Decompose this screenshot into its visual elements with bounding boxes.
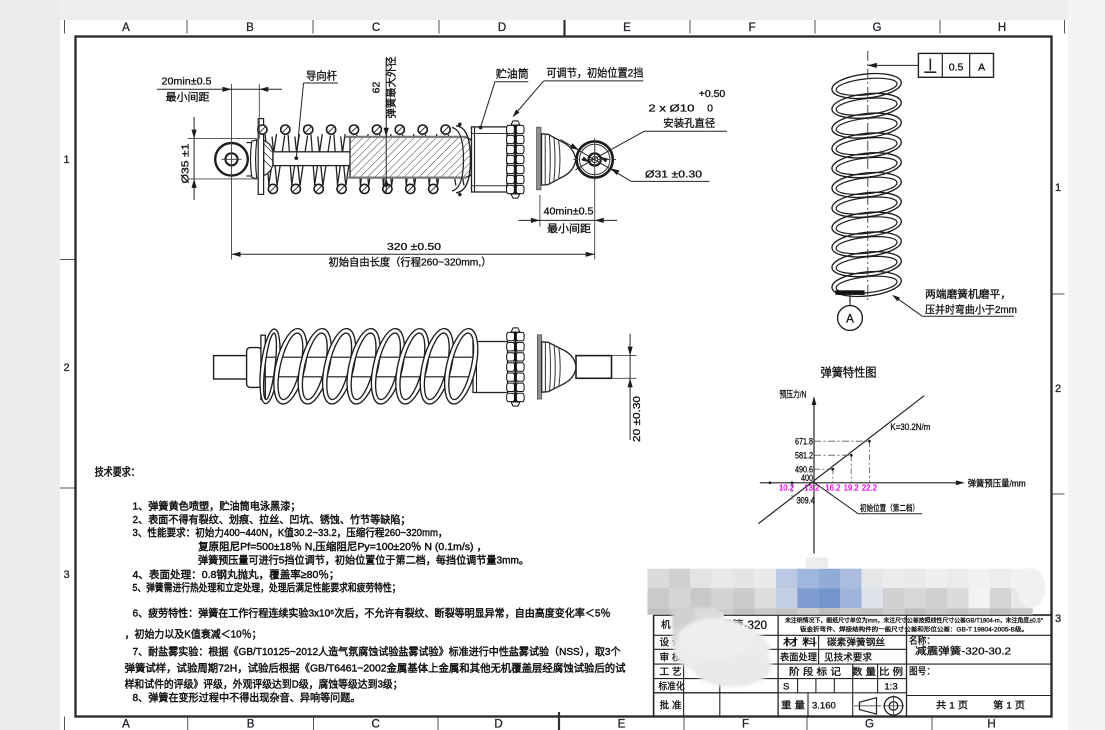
svg-text:名称：: 名称： bbox=[909, 635, 935, 647]
mosaic top protrusion block bbox=[806, 557, 829, 568]
svg-text:两端磨簧机磨平，: 两端磨簧机磨平， bbox=[925, 288, 1011, 301]
mosaic bottom strip bbox=[648, 608, 670, 615]
svg-text:3、性能要求：初始力400~440N，K值30.2~33.2: 3、性能要求：初始力400~440N，K值30.2~33.2，压缩行程260~3… bbox=[133, 526, 448, 539]
dimension 62 spring max OD bbox=[385, 57, 387, 194]
zone row ticks left bbox=[60, 259, 76, 261]
view2 preload adjuster rings bbox=[507, 332, 515, 340]
view1 left eye ring bbox=[215, 143, 248, 176]
chart dashed construction lines bbox=[814, 440, 869, 442]
view1 piston rod (guide rod) bbox=[273, 152, 351, 166]
svg-text:1: 1 bbox=[63, 154, 69, 166]
zone band ticks bottom bbox=[64, 717, 66, 730]
svg-text:S: S bbox=[783, 682, 789, 693]
svg-text:可调节，初始位置2挡: 可调节，初始位置2挡 bbox=[546, 66, 643, 80]
svg-text:Ø31 ±0.30: Ø31 ±0.30 bbox=[645, 169, 702, 181]
mosaic watermark band bbox=[648, 569, 670, 588]
svg-text:671.8: 671.8 bbox=[795, 436, 813, 446]
svg-text:最小间距: 最小间距 bbox=[166, 91, 211, 104]
view1 neck lines bbox=[247, 142, 252, 144]
view1 right eye centerline vertical bbox=[594, 140, 596, 260]
view2 inner rod line bbox=[265, 357, 473, 377]
svg-text:2、表面不得有裂纹、划痕、拉丝、凹坑、锈蚀、竹节等缺陷；: 2、表面不得有裂纹、划痕、拉丝、凹坑、锈蚀、竹节等缺陷； bbox=[133, 513, 411, 526]
svg-text:22.2: 22.2 bbox=[862, 482, 877, 492]
svg-text:20min±0.5: 20min±0.5 bbox=[162, 76, 212, 88]
svg-text:安装孔直径: 安装孔直径 bbox=[663, 117, 715, 130]
datum circle A bbox=[849, 295, 851, 306]
chart y-axis bbox=[813, 400, 815, 554]
svg-text:H: H bbox=[998, 22, 1006, 34]
svg-text:比 例: 比 例 bbox=[879, 666, 903, 678]
svg-text:16.2: 16.2 bbox=[825, 482, 840, 492]
view1 spring wire section circles top bbox=[258, 125, 267, 134]
svg-text:弹簧预压量可进行5挡位调节，初始位置位于第二档，每挡位调节量: 弹簧预压量可进行5挡位调节，初始位置位于第二档，每挡位调节量3mm。 bbox=[198, 554, 529, 567]
svg-text:1: 1 bbox=[1055, 182, 1061, 194]
svg-text:F: F bbox=[742, 719, 749, 730]
svg-text:7、耐盐雾实验：根据《GB/T10125~2012人造气氛腐: 7、耐盐雾实验：根据《GB/T10125~2012人造气氛腐蚀试验盐雾试验》标准… bbox=[133, 645, 621, 658]
title block grid bbox=[654, 614, 1052, 616]
svg-text:钣金折弯件、焊接结构件的一般尺寸公差和形位公差：GB-T 1: 钣金折弯件、焊接结构件的一般尺寸公差和形位公差：GB-T 19804-2005-… bbox=[800, 626, 1028, 634]
svg-text:弹簧特性图: 弹簧特性图 bbox=[821, 365, 877, 380]
svg-text:2 x Ø10: 2 x Ø10 bbox=[648, 103, 694, 115]
svg-text:6、疲劳特性：弹簧在工作行程连续实验3x10⁵次后，不允许有: 6、疲劳特性：弹簧在工作行程连续实验3x10⁵次后，不允许有裂纹、断裂等明显异常… bbox=[133, 607, 611, 620]
svg-text:图号：: 图号： bbox=[909, 667, 935, 678]
svg-text:62: 62 bbox=[371, 82, 383, 94]
view1 spring coil wires bbox=[269, 134, 277, 186]
chart K line bbox=[758, 396, 924, 524]
view2 damper tube bbox=[473, 342, 508, 393]
svg-text:F: F bbox=[748, 22, 755, 34]
svg-text:A: A bbox=[122, 719, 130, 730]
svg-text:导向杆: 导向杆 bbox=[306, 69, 337, 83]
svg-text:贮油筒: 贮油筒 bbox=[496, 67, 529, 81]
view2 seat washer right bbox=[537, 335, 541, 399]
right spring ground end bar bbox=[835, 290, 864, 295]
svg-text:H: H bbox=[987, 719, 995, 730]
svg-text:3: 3 bbox=[1055, 613, 1061, 625]
svg-text:碳素弹簧钢丝: 碳素弹簧钢丝 bbox=[827, 637, 885, 649]
projection symbol bbox=[860, 698, 877, 714]
mosaic right rounded end bbox=[1017, 568, 1045, 608]
mosaic over model name bbox=[683, 612, 724, 626]
svg-text:0: 0 bbox=[707, 103, 713, 115]
view1 spring wire section circles bottom bbox=[268, 184, 277, 193]
svg-text:C: C bbox=[372, 22, 380, 34]
view1 seat washer bbox=[537, 127, 541, 190]
svg-text:13.2: 13.2 bbox=[804, 482, 819, 492]
svg-text:G: G bbox=[865, 719, 874, 730]
svg-text:1、弹簧黄色喷塑，贮油筒电泳黑漆；: 1、弹簧黄色喷塑，贮油筒电泳黑漆； bbox=[133, 500, 301, 513]
svg-text:未注明情况下，图纸尺寸单位为mm，未注尺寸公差按照线性尺寸公: 未注明情况下，图纸尺寸单位为mm，未注尺寸公差按照线性尺寸公差GB/T1804-… bbox=[785, 617, 1043, 625]
svg-text:E: E bbox=[623, 22, 631, 34]
dimension 40min±0.5 bbox=[539, 195, 541, 227]
svg-text:G: G bbox=[873, 22, 882, 34]
perpendicularity frame bbox=[868, 64, 919, 66]
svg-text:见技术要求: 见技术要求 bbox=[824, 652, 872, 664]
svg-text:共 1 页: 共 1 页 bbox=[936, 701, 968, 712]
svg-text:581.2: 581.2 bbox=[795, 450, 813, 460]
svg-text:A: A bbox=[978, 62, 985, 74]
right spring part view bbox=[831, 70, 903, 101]
svg-text:C: C bbox=[372, 719, 380, 730]
svg-text:E: E bbox=[618, 719, 626, 730]
svg-text:A: A bbox=[846, 314, 854, 326]
svg-text:B: B bbox=[247, 719, 255, 730]
svg-text:20 ±0.30: 20 ±0.30 bbox=[631, 396, 643, 442]
svg-text:Ø35 ±1: Ø35 ±1 bbox=[180, 143, 192, 183]
svg-text:2: 2 bbox=[63, 362, 69, 374]
svg-text:材 料: 材 料 bbox=[783, 637, 818, 649]
view2 right rod bbox=[576, 356, 612, 379]
signature blur blob bbox=[672, 608, 772, 688]
svg-text:弹簧预压量/mm: 弹簧预压量/mm bbox=[968, 478, 1026, 489]
dimension Ø31 leader bbox=[561, 140, 632, 182]
svg-text:，初始力以及K值衰减＜10％；: ，初始力以及K值衰减＜10％； bbox=[125, 628, 262, 641]
svg-text:重 量: 重 量 bbox=[781, 700, 806, 712]
view1 eye centerline vertical bbox=[231, 84, 233, 260]
view1 cone bushing bbox=[542, 134, 576, 185]
svg-text:D: D bbox=[498, 22, 506, 34]
svg-text:第 1 页: 第 1 页 bbox=[993, 700, 1025, 712]
svg-text:弹簧试样，试验周期72H，试验后根据《GB/T6461~20: 弹簧试样，试验周期72H，试验后根据《GB/T6461~2002金属基体上金属和… bbox=[125, 662, 626, 675]
svg-text:3: 3 bbox=[63, 569, 69, 581]
svg-text:工 艺: 工 艺 bbox=[660, 667, 682, 678]
svg-text:样和试件的评级》评级，外观评级达到D级，腐蚀等级达到3级；: 样和试件的评级》评级，外观评级达到D级，腐蚀等级达到3级； bbox=[125, 678, 403, 691]
svg-text:标准化: 标准化 bbox=[659, 681, 685, 693]
svg-text:3.160: 3.160 bbox=[812, 701, 836, 712]
view2 nut bbox=[247, 348, 262, 388]
view1 clevis wedge hatched bbox=[264, 141, 273, 176]
view2 cone bushing bbox=[542, 342, 577, 392]
view2 spring coils bbox=[256, 328, 283, 405]
svg-text:批 准: 批 准 bbox=[660, 700, 683, 712]
svg-text:19.2: 19.2 bbox=[844, 482, 859, 492]
svg-text:减震弹簧-320-30.2: 减震弹簧-320-30.2 bbox=[915, 645, 1012, 658]
view1 preload adjuster rings bbox=[507, 125, 515, 133]
svg-text:B: B bbox=[246, 22, 254, 34]
zone row ticks right bbox=[1052, 293, 1065, 295]
svg-text:表面处理: 表面处理 bbox=[780, 652, 817, 664]
svg-text:+0.50: +0.50 bbox=[699, 88, 726, 100]
dimension 20min±0.5 bbox=[157, 88, 282, 90]
svg-text:A: A bbox=[122, 22, 130, 34]
zone band ticks top bbox=[64, 20, 66, 34]
svg-text:40min±0.5: 40min±0.5 bbox=[544, 206, 594, 218]
dimension Ø35 ±1 bbox=[193, 117, 195, 200]
view2 seat washer bbox=[261, 335, 265, 399]
view1 right eye ring bbox=[577, 141, 613, 177]
svg-text:320 ±0.50: 320 ±0.50 bbox=[387, 241, 441, 253]
svg-text:初始位置（第二档）: 初始位置（第二档） bbox=[860, 503, 919, 513]
chart x-axis bbox=[760, 482, 960, 484]
view1 collar disc bbox=[251, 140, 257, 179]
svg-text:初始自由长度（行程260~320mm,）: 初始自由长度（行程260~320mm,） bbox=[329, 256, 492, 269]
svg-text:弹簧最大外径: 弹簧最大外径 bbox=[385, 56, 398, 118]
svg-text:4、表面处理：0.8钢丸抛丸，覆盖率≥80％；: 4、表面处理：0.8钢丸抛丸，覆盖率≥80％； bbox=[133, 568, 340, 581]
view1 spring seat plate left bbox=[258, 119, 263, 195]
view1 spring right end coil arc bbox=[456, 126, 471, 193]
view1 oil reservoir tube bbox=[472, 127, 508, 192]
svg-text:5、弹簧需进行热处理和立定处理，处理后满足性能要求和疲劳特性: 5、弹簧需进行热处理和立定处理，处理后满足性能要求和疲劳特性； bbox=[133, 581, 401, 594]
dimension 320 ±0.50 free length bbox=[232, 253, 595, 255]
svg-text:1:3: 1:3 bbox=[884, 682, 897, 693]
svg-text:技术要求：: 技术要求： bbox=[95, 466, 140, 479]
view1 junction dots bbox=[458, 123, 462, 127]
svg-text:最小间距: 最小间距 bbox=[547, 222, 592, 235]
svg-text:D: D bbox=[494, 719, 502, 730]
dimension 20 ±0.30 bbox=[612, 355, 637, 357]
view2 left rod bbox=[214, 356, 247, 379]
svg-text:0.5: 0.5 bbox=[949, 62, 964, 74]
svg-text:数 量: 数 量 bbox=[852, 666, 877, 678]
right spring centerline bbox=[867, 51, 869, 303]
svg-text:阶 段 标 记: 阶 段 标 记 bbox=[789, 666, 842, 678]
svg-text:2: 2 bbox=[1055, 383, 1061, 395]
svg-text:压并时弯曲小于2mm: 压并时弯曲小于2mm bbox=[925, 303, 1017, 316]
svg-text:复原阻尼Pf=500±18％ N,压缩阻尼Py=100±20: 复原阻尼Pf=500±18％ N,压缩阻尼Py=100±20％ N (0.1m/… bbox=[198, 540, 487, 553]
svg-text:K=30.2N/m: K=30.2N/m bbox=[890, 422, 930, 432]
svg-text:8、弹簧在变形过程中不得出现杂音、异响等问题。: 8、弹簧在变形过程中不得出现杂音、异响等问题。 bbox=[133, 691, 361, 704]
svg-text:预压力/N: 预压力/N bbox=[780, 389, 807, 400]
